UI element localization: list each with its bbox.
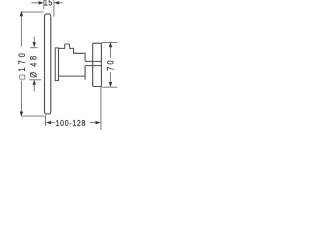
wall plate (escutcheon, side view) — [45, 14, 51, 114]
dimension 15 line left segment — [31, 2, 39, 4]
svg-text:□170: □170 — [17, 50, 27, 79]
svg-text:48: 48 — [29, 53, 39, 66]
spindle lower line — [85, 65, 101, 67]
svg-text:70: 70 — [106, 58, 116, 71]
dimension 100-128 left arrow — [46, 121, 51, 124]
extension line from plate to 100-128 — [45, 115, 47, 126]
dimension 70 bottom arrow — [109, 82, 112, 87]
dimension 70 extension line bottom — [101, 86, 117, 88]
dimension 48 line top segment — [33, 37, 35, 43]
svg-text:Ø: Ø — [29, 71, 39, 77]
dimension 48 bottom arrow — [33, 80, 36, 85]
dimension 15 extension line left — [43, 0, 45, 9]
dimension 170 bottom arrow — [20, 112, 23, 117]
dimension 100-128 line left segment — [51, 122, 55, 124]
dimension 15 extension line right — [53, 0, 55, 17]
dimension 170 line lower segment — [20, 81, 22, 112]
extension line from valve body to 100-128 — [100, 87, 102, 130]
handle flange (sleeve) — [55, 48, 58, 81]
dimension 15 right arrow — [54, 1, 59, 4]
dimension 100-128 line right segment — [90, 122, 96, 124]
concealed valve body (in-wall box) — [93, 43, 102, 86]
dimension 170 line upper segment — [20, 16, 22, 47]
dimension 170 top arrow — [20, 11, 23, 16]
dimension 100-128 right arrow — [96, 121, 101, 124]
dimension 48 line bottom segment — [33, 85, 35, 92]
dimension 70 extension line top — [101, 41, 117, 43]
spindle upper line — [85, 60, 101, 62]
svg-text:15: 15 — [44, 0, 53, 7]
dimension 70 line upper segment — [110, 47, 112, 58]
dimension 48 top arrow — [33, 42, 36, 47]
handle grip outline — [59, 44, 86, 80]
dimension 70 line lower segment — [110, 72, 112, 83]
dimension 170 extension line top — [21, 11, 43, 13]
dimension 15 left arrow — [39, 1, 44, 4]
dimension 170 extension line bottom — [21, 115, 44, 117]
svg-text:100-128: 100-128 — [56, 118, 86, 128]
dimension 70 top arrow — [109, 42, 112, 47]
dimension 48 extension line bottom — [29, 79, 41, 81]
dimension 15 line right segment — [58, 2, 63, 4]
dimension 48 extension line top — [30, 47, 38, 49]
